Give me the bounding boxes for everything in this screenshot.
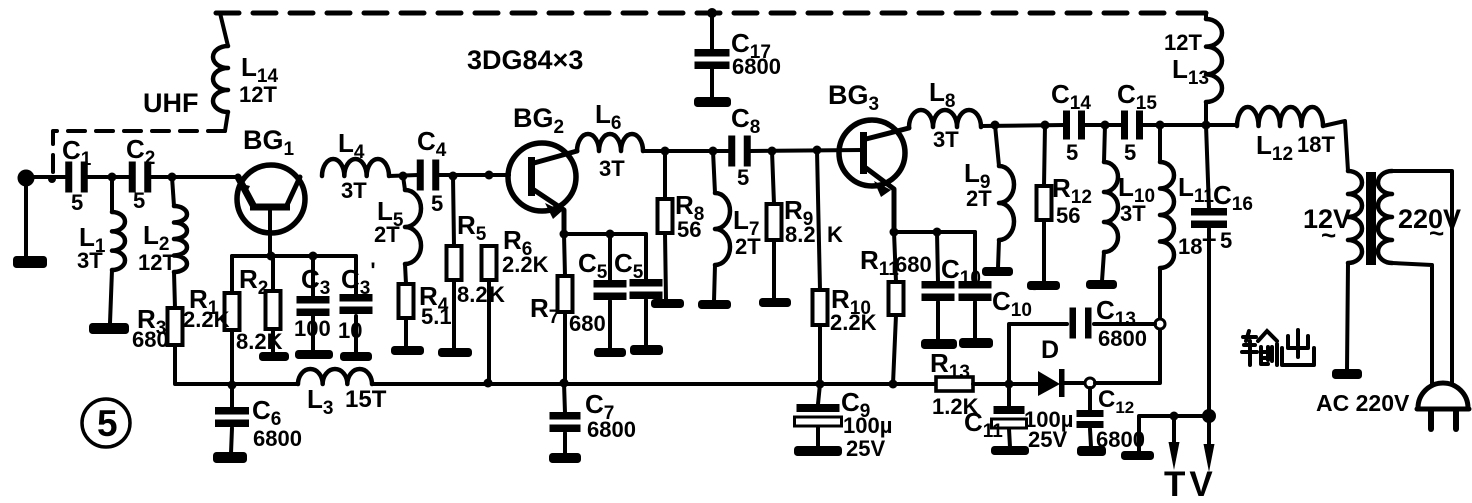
label 6800 C12: [1096, 427, 1145, 452]
wire C4-BG2: [438, 173, 509, 177]
svg-text:12T: 12T: [239, 82, 277, 107]
capacitor C17 6800: [695, 13, 730, 98]
inductor L5 2T: [403, 176, 421, 284]
label L4: [338, 128, 365, 163]
label 12V: [1303, 204, 1351, 250]
wire C14-C15: [1084, 123, 1124, 127]
node R6 tap: [485, 171, 494, 180]
ground L10: [1086, 280, 1117, 289]
node L11 tap: [1156, 121, 1165, 130]
ground C7: [549, 453, 581, 463]
resistor R1 2.2K: [225, 256, 240, 386]
label 680 R7: [569, 311, 606, 336]
inductor L4 3T: [322, 159, 389, 176]
node C5 tap: [606, 230, 615, 239]
svg-text:100: 100: [294, 316, 331, 341]
svg-text:680: 680: [132, 327, 169, 352]
svg-text:2T: 2T: [966, 186, 992, 211]
label 12T L2: [138, 250, 176, 275]
svg-text:680: 680: [895, 252, 932, 277]
label L14: [241, 52, 278, 87]
resistor R3 680: [168, 308, 183, 345]
label 6800 C13: [1098, 326, 1147, 351]
node L7 tap: [709, 147, 718, 156]
label C10': [992, 280, 1037, 321]
svg-text:56: 56: [1056, 203, 1080, 228]
label 2T L9: [966, 186, 992, 211]
ground transformer: [1332, 369, 1362, 379]
label 100u C11: [1024, 407, 1073, 432]
label R1: [189, 284, 219, 319]
svg-text:680: 680: [569, 311, 606, 336]
label C16: [1213, 180, 1253, 215]
ground TV: [1121, 451, 1154, 460]
svg-text:5: 5: [1066, 140, 1078, 165]
wire dashed +12V shield rail: [216, 11, 1206, 16]
node D anode: [1005, 380, 1014, 389]
inductor L3 15T: [298, 369, 372, 384]
svg-text:3T: 3T: [599, 156, 625, 181]
transformer secondary 220V winding: [1378, 171, 1392, 263]
svg-text:~: ~: [1429, 218, 1444, 248]
ground C9: [794, 446, 842, 456]
label K R5: [489, 282, 505, 307]
diode D: [1038, 369, 1085, 397]
node L10 tap: [1101, 121, 1110, 130]
wire D-C13 node: [1095, 329, 1160, 383]
wire C8-BG3: [750, 150, 862, 151]
svg-text:6800: 6800: [732, 54, 781, 79]
ground C5': [630, 345, 663, 355]
label R3: [137, 304, 166, 339]
capacitor C16 5: [1191, 125, 1227, 416]
label 680 R3: [132, 327, 169, 352]
label C3': [341, 258, 376, 299]
label L5: [377, 196, 404, 231]
wire emitter rail BG3: [894, 230, 975, 234]
resistor R12 56: [1037, 125, 1052, 282]
node emitter BG3: [890, 228, 899, 237]
wire BG1 bias rail: [232, 254, 356, 258]
ground R8: [651, 299, 684, 308]
node C10 tap: [933, 228, 942, 237]
node D cathode terminal: [1085, 378, 1095, 388]
svg-text:6800: 6800: [587, 417, 636, 442]
label 5 C16: [1220, 228, 1232, 253]
label 3T L1: [77, 248, 103, 273]
label 12T L13: [1164, 30, 1202, 55]
ground C17: [694, 97, 731, 107]
ground C3': [340, 352, 372, 361]
label output chinese chu: [1282, 330, 1314, 365]
capacitor C11 100u 25V: [992, 384, 1027, 447]
label 3T L6: [599, 156, 625, 181]
arrow TV 1: [1169, 416, 1180, 470]
label C3: [301, 264, 330, 299]
node R11 bus: [889, 380, 898, 389]
label 5.1 R4: [421, 304, 452, 329]
wire dashed UHF box: [53, 131, 225, 175]
svg-text:8.2: 8.2: [457, 282, 488, 307]
label 1.2K R13: [932, 394, 979, 419]
label 10 C3': [338, 318, 362, 343]
label C10: [941, 254, 981, 289]
label TV: [1164, 465, 1217, 503]
svg-text:2.2K: 2.2K: [502, 252, 549, 277]
svg-text:56: 56: [677, 217, 701, 242]
inductor L14 12T: [213, 13, 228, 131]
svg-text:18T: 18T: [1297, 132, 1335, 157]
label R8: [675, 190, 704, 225]
ground R5: [438, 348, 472, 357]
node R5 tap: [449, 172, 458, 181]
node C13 junction: [1155, 319, 1165, 329]
svg-text:5: 5: [97, 403, 118, 444]
svg-text:5: 5: [737, 165, 749, 190]
node output: [1202, 121, 1211, 130]
label 56 R8: [677, 217, 701, 242]
wire L8-C14: [981, 125, 1064, 127]
label L10: [1118, 172, 1155, 207]
capacitor C4: [417, 160, 440, 191]
label AC 220V: [1316, 390, 1410, 416]
label L13: [1172, 54, 1209, 89]
inductor L8 3T: [909, 110, 981, 127]
node after C1: [108, 173, 117, 182]
svg-text:3T: 3T: [1120, 201, 1146, 226]
label C1: [62, 135, 92, 170]
svg-text:K: K: [489, 282, 505, 307]
label L7: [733, 205, 759, 240]
capacitor C15: [1121, 111, 1143, 140]
label 6800 C6: [253, 426, 302, 451]
node C17 tap on rail: [707, 8, 717, 18]
label 25V C11: [1028, 427, 1067, 452]
label 8.2 R5: [457, 282, 488, 307]
label C2: [126, 134, 155, 169]
svg-text:6800: 6800: [1098, 326, 1147, 351]
label 2.2K R1: [183, 307, 230, 332]
label 220V: [1398, 204, 1461, 248]
ground L9: [982, 267, 1013, 276]
transistor BG1: [237, 165, 305, 257]
label R10: [831, 284, 871, 319]
label UHF: [143, 88, 199, 118]
ground L7: [698, 300, 731, 309]
inductor L6 3T: [577, 134, 643, 151]
wire L4-C4: [389, 175, 418, 176]
label C6: [252, 395, 281, 430]
capacitor C9 100u 25V: [795, 384, 842, 447]
svg-text:6800: 6800: [253, 426, 302, 451]
label C9: [841, 387, 870, 422]
arrow TV 2: [1204, 416, 1215, 472]
label R12: [1052, 173, 1092, 208]
label output chinese shu: [1242, 331, 1277, 365]
node C3 tap: [309, 252, 318, 261]
label L1: [79, 222, 106, 257]
inductor L10 3T: [1102, 125, 1118, 281]
ground C5: [594, 348, 626, 357]
inductor L2 12T: [172, 177, 187, 308]
label C5': [614, 242, 649, 283]
inductor L7 2T: [713, 151, 730, 301]
transistor BG3: [839, 120, 909, 232]
svg-text:5: 5: [1124, 140, 1136, 165]
ground R4: [391, 346, 424, 355]
capacitor C6 6800: [215, 385, 249, 453]
svg-text:2.2K: 2.2K: [830, 310, 877, 335]
svg-text:~: ~: [1321, 220, 1336, 250]
svg-text:TV: TV: [1164, 465, 1217, 498]
capacitor C10: [922, 232, 955, 340]
transformer core: [1366, 172, 1376, 265]
label C14: [1051, 79, 1091, 114]
wire TV node left: [1139, 416, 1209, 452]
ground C12: [1077, 446, 1106, 456]
node TV arrow tap: [1170, 412, 1179, 421]
node R10 bus: [816, 380, 825, 389]
label BG2: [513, 103, 564, 138]
label 56 R12: [1056, 203, 1080, 228]
svg-text:UHF: UHF: [143, 88, 199, 118]
wire input line: [26, 175, 67, 179]
label 12T L14: [239, 82, 277, 107]
svg-text:5.1: 5.1: [421, 304, 452, 329]
node emitter BG2: [560, 230, 569, 239]
label C7: [585, 389, 614, 424]
inductor L1 3T: [110, 177, 125, 323]
label 25V C9: [846, 436, 885, 461]
resistor R10 2.2K: [813, 150, 828, 384]
node R8 tap: [661, 147, 670, 156]
svg-text:8.2: 8.2: [785, 222, 816, 247]
resistor R5 8.2K: [447, 176, 462, 349]
svg-text:12T: 12T: [138, 250, 176, 275]
label 3DG84x3: [467, 45, 583, 75]
ground C3: [295, 350, 333, 359]
label C5: [578, 248, 608, 283]
ground C6: [213, 452, 247, 463]
capacitor C1: [65, 162, 88, 193]
label 3T L8: [933, 127, 959, 152]
label 5 C2: [133, 188, 145, 213]
label 2T L5: [374, 222, 400, 247]
node R9 tap: [768, 147, 777, 156]
wire L12-transformer: [1323, 121, 1348, 171]
wire secondary bottom lead: [1392, 263, 1432, 386]
svg-text:5: 5: [71, 190, 83, 215]
label 3T L10: [1120, 201, 1146, 226]
wire C13 branch: [1009, 324, 1067, 384]
svg-text:2T: 2T: [735, 234, 761, 259]
ground R2: [259, 352, 289, 361]
resistor R6 2.2K: [482, 246, 497, 383]
resistor R8 56: [658, 151, 673, 300]
node dashed box tap: [48, 175, 56, 183]
label L9: [964, 158, 990, 193]
capacitor C3 100: [297, 256, 330, 351]
label BG1: [243, 125, 295, 160]
svg-text:AC 220V: AC 220V: [1316, 390, 1410, 416]
wire R3-bus: [175, 345, 232, 384]
label L3: [307, 384, 333, 419]
resistor R4 5.1: [399, 284, 414, 347]
node TV junction: [1202, 409, 1216, 423]
label 2T L7: [735, 234, 761, 259]
ground R12: [1027, 281, 1060, 290]
ground L1: [89, 323, 129, 334]
wire C2-BG1: [149, 175, 239, 179]
ground C10: [921, 339, 957, 349]
capacitor C14: [1063, 111, 1085, 140]
ground C10': [959, 338, 993, 348]
svg-text:25V: 25V: [846, 436, 885, 461]
wire C1-C2: [86, 175, 131, 179]
label L6: [595, 99, 621, 134]
capacitor C5: [594, 234, 627, 348]
label 100 C3: [294, 316, 331, 341]
node R12 tap: [1041, 121, 1050, 130]
label 5 C1: [71, 190, 83, 215]
label C13: [1096, 295, 1136, 330]
node base BG1: [267, 252, 276, 261]
label 6800 C7: [587, 417, 636, 442]
svg-text:3T: 3T: [341, 178, 367, 203]
label 6800 C17: [732, 54, 781, 79]
label 2.2K R6: [502, 252, 549, 277]
svg-text:15T: 15T: [345, 386, 387, 413]
capacitor C2: [129, 162, 152, 193]
label L2: [143, 220, 169, 255]
node L9 tap: [991, 121, 1000, 130]
ground R9: [759, 298, 791, 307]
resistor R13 1.2K: [936, 377, 973, 391]
label C15: [1117, 79, 1157, 114]
label 3T L4: [341, 178, 367, 203]
label R2: [239, 264, 268, 299]
label 100u C9: [843, 413, 892, 438]
svg-text:3T: 3T: [77, 248, 103, 273]
label 18T L12: [1297, 132, 1335, 157]
label 8.2K R2: [236, 329, 283, 354]
label 5 C4: [431, 191, 443, 216]
label R6: [503, 225, 532, 260]
transformer primary 12V winding: [1348, 171, 1362, 263]
wire C15-L12: [1142, 123, 1237, 127]
resistor R11 680: [889, 232, 904, 384]
label K R9: [827, 222, 843, 247]
transistor BG2: [508, 143, 577, 234]
label 18T L11: [1178, 234, 1216, 259]
ground C11: [991, 446, 1029, 455]
wire secondary top lead: [1392, 171, 1452, 388]
label circled 5: [82, 399, 130, 447]
label 2.2K R10: [830, 310, 877, 335]
node R6 bus: [484, 379, 493, 388]
label 5 C15: [1124, 140, 1136, 165]
resistor R9 8.2K: [767, 151, 782, 298]
svg-text:8.2K: 8.2K: [236, 329, 283, 354]
label R11: [860, 245, 899, 280]
label C11: [964, 407, 1003, 442]
label R13: [930, 348, 970, 383]
node R7 bus: [560, 379, 569, 388]
wire supply bus right: [372, 382, 936, 386]
label R5: [457, 210, 487, 245]
label C4: [417, 126, 447, 161]
capacitor C5': [630, 234, 663, 346]
label R4: [419, 281, 449, 316]
node L5 tap: [399, 172, 408, 181]
input terminal: [18, 170, 35, 257]
resistor R2 8.2K: [266, 256, 281, 353]
inductor L11 18T: [1160, 125, 1174, 319]
svg-text:K: K: [827, 222, 843, 247]
node R1 bus: [228, 381, 237, 390]
label L8: [929, 77, 955, 112]
label 5 C8: [737, 165, 749, 190]
label 5 C14: [1066, 140, 1078, 165]
svg-text:5: 5: [431, 191, 443, 216]
label L12: [1256, 130, 1293, 165]
label C17: [731, 28, 771, 63]
wire primary to ground: [1347, 263, 1348, 370]
svg-text:25V: 25V: [1028, 427, 1067, 452]
svg-text:5: 5: [1220, 228, 1232, 253]
label D: [1041, 336, 1059, 364]
label 8.2 R9: [785, 222, 816, 247]
wire L6-C8: [643, 149, 729, 153]
svg-text:2.2K: 2.2K: [183, 307, 230, 332]
node after C2: [168, 173, 177, 182]
svg-text:5: 5: [133, 188, 145, 213]
label 680 R11: [895, 252, 932, 277]
label C12: [1098, 386, 1134, 417]
svg-text:2T: 2T: [374, 222, 400, 247]
capacitor C3' 10: [340, 256, 373, 353]
label C8: [731, 103, 760, 138]
label L11: [1178, 172, 1214, 207]
mains plug: [1417, 383, 1469, 429]
svg-text:12T: 12T: [1164, 30, 1202, 55]
capacitor C8: [728, 136, 751, 167]
svg-text:100µ: 100µ: [843, 413, 892, 438]
capacitor C12 6800: [1077, 388, 1104, 447]
capacitor C10': [959, 232, 992, 339]
inductor L12 18T: [1237, 107, 1323, 126]
svg-text:10: 10: [338, 318, 362, 343]
label BG3: [828, 80, 879, 115]
capacitor C7 6800: [550, 383, 581, 454]
resistor R7 680: [558, 234, 573, 383]
svg-text:3T: 3T: [933, 127, 959, 152]
node R10 tap: [813, 146, 822, 155]
inductor L9 2T: [995, 125, 1014, 268]
ground input: [13, 256, 47, 268]
inductor L13 12T: [1206, 13, 1222, 125]
label R7: [530, 293, 559, 328]
label R9: [784, 195, 813, 230]
wire supply bus: [232, 382, 298, 386]
capacitor C13 6800: [1070, 308, 1156, 339]
wire R13-D: [973, 382, 1039, 386]
label 15T L3: [345, 386, 387, 413]
svg-text:D: D: [1041, 336, 1059, 364]
wire emitter rail: [564, 232, 646, 236]
svg-text:3DG84×3: 3DG84×3: [467, 45, 583, 75]
